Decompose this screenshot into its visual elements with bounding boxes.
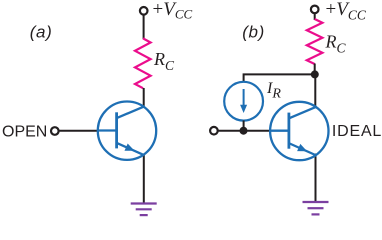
wire: current source to base node (b) (243, 121, 245, 131)
emitter arrowhead Q2 (b) (297, 144, 307, 151)
wire: resistor to junction dot (b) (314, 64, 316, 76)
transistor Q1 (a) (97, 102, 156, 160)
svg-text:(b): (b) (242, 23, 265, 42)
junction dot collector (b) (311, 70, 319, 78)
ground (b) (303, 202, 329, 214)
open terminal (b) (210, 127, 218, 135)
resistor RC (b) (307, 19, 323, 64)
transistor Q2 (b) (269, 102, 328, 160)
ground (a) (131, 204, 157, 216)
wire: VCC terminal to resistor (b) (314, 13, 316, 20)
wire: open terminal to base (b) (218, 130, 271, 132)
open terminal (a) (51, 127, 59, 135)
junction dot base (b) (240, 127, 248, 135)
terminal +VCC (b) (311, 6, 319, 14)
wire: VCC terminal to resistor (a) (143, 14, 145, 39)
emitter arrowhead Q1 (a) (125, 144, 135, 151)
wire: emitter to ground (b) (315, 154, 317, 203)
wire: open terminal to base (a) (59, 130, 98, 132)
svg-text:(a): (a) (30, 23, 53, 42)
wire: resistor to collector (a) (143, 88, 145, 107)
svg-text:IDEAL: IDEAL (332, 123, 382, 140)
wire: collector junction to transistor (b) (314, 74, 316, 107)
wire: emitter to ground (a) (143, 154, 145, 204)
svg-text:OPEN: OPEN (2, 124, 47, 141)
current source IR (b) (224, 82, 263, 121)
current source arrowhead (b) (240, 105, 247, 113)
resistor RC (a) (135, 38, 151, 88)
wire: top horizontal to current source (b) (244, 74, 315, 82)
terminal +VCC (a) (140, 7, 148, 15)
